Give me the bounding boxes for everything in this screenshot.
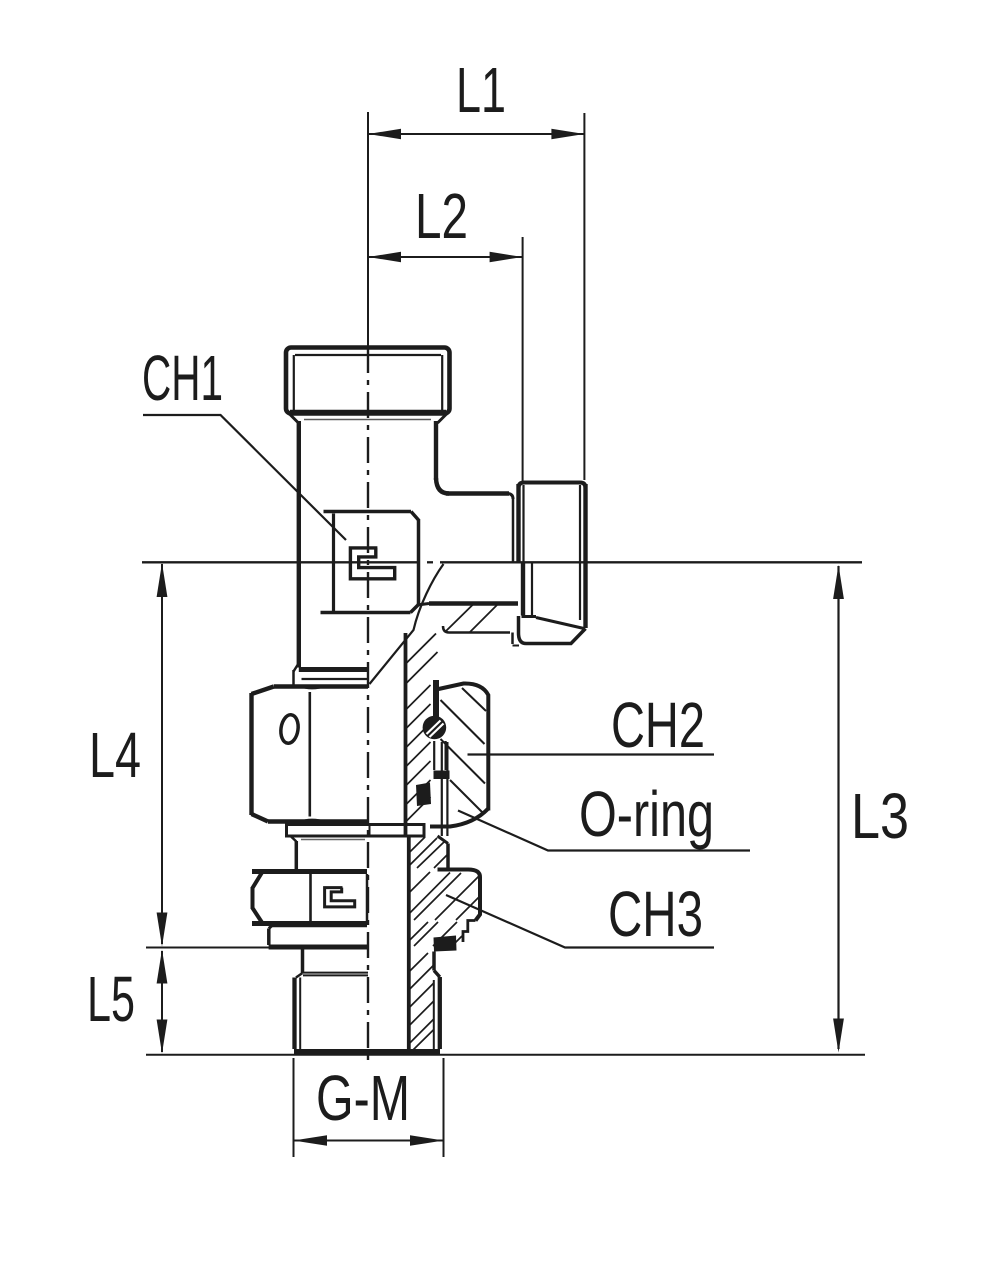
- label O-ring with leader: [458, 778, 750, 851]
- dimension L4: [89, 563, 269, 948]
- O-ring seal: [423, 716, 447, 740]
- stud section outer profile: [434, 952, 440, 1050]
- small hex B2 section: [438, 870, 481, 943]
- lower neck: [291, 836, 449, 869]
- label CH1 with leader: [142, 342, 346, 540]
- hatch stud section: [409, 953, 434, 1050]
- cap-to-body flare: [289, 414, 447, 424]
- flange front: [269, 926, 369, 948]
- small hex B2 front: [252, 872, 367, 924]
- captive seal black square: [434, 936, 457, 952]
- label CH2 with leader: [468, 689, 715, 761]
- centerline vertical axis: [367, 112, 369, 1067]
- label CH3 with leader: [446, 878, 714, 950]
- washer below nut: [287, 825, 425, 840]
- nut B1 section: [416, 680, 488, 836]
- stud thread line in section: [433, 980, 435, 1050]
- thread spiral symbol upper: [350, 548, 394, 579]
- hatch lower neck section: [409, 837, 448, 868]
- svg-text:O-ring: O-ring: [579, 778, 714, 850]
- svg-text:L5: L5: [87, 963, 135, 1035]
- dimension L3: [833, 565, 909, 1053]
- svg-text:CH3: CH3: [608, 878, 703, 950]
- port neck underside: [417, 604, 519, 646]
- dimension L5: [87, 950, 865, 1055]
- dimension L2: [368, 180, 523, 483]
- hatch flange section: [409, 922, 462, 946]
- dimension L1: [368, 54, 584, 480]
- dimension G-M: [294, 1058, 444, 1157]
- hatch small hex section: [409, 872, 479, 920]
- svg-text:L1: L1: [456, 54, 506, 126]
- bore wall in section: [406, 633, 409, 1049]
- svg-text:L3: L3: [851, 780, 909, 852]
- hatch nut section: [441, 688, 487, 814]
- hatch body neck section: [406, 605, 498, 685]
- hatch body inside nut: [406, 685, 431, 822]
- nut B1 front view: [252, 687, 369, 822]
- stud front view: [294, 949, 440, 1052]
- body column: [294, 421, 514, 687]
- section boundary curve: [370, 564, 444, 684]
- svg-text:CH2: CH2: [611, 689, 705, 761]
- hex flat marking CH1 square: [321, 512, 419, 613]
- svg-text:CH1: CH1: [142, 342, 223, 414]
- top hex cap: [286, 348, 450, 414]
- side port: [519, 483, 586, 644]
- centerline horizontal axis / L4 L3 extension: [142, 561, 862, 563]
- thread spiral symbol lower: [325, 888, 355, 907]
- svg-text:L2: L2: [415, 180, 468, 252]
- svg-text:L4: L4: [89, 719, 141, 791]
- svg-text:G-M: G-M: [316, 1062, 410, 1134]
